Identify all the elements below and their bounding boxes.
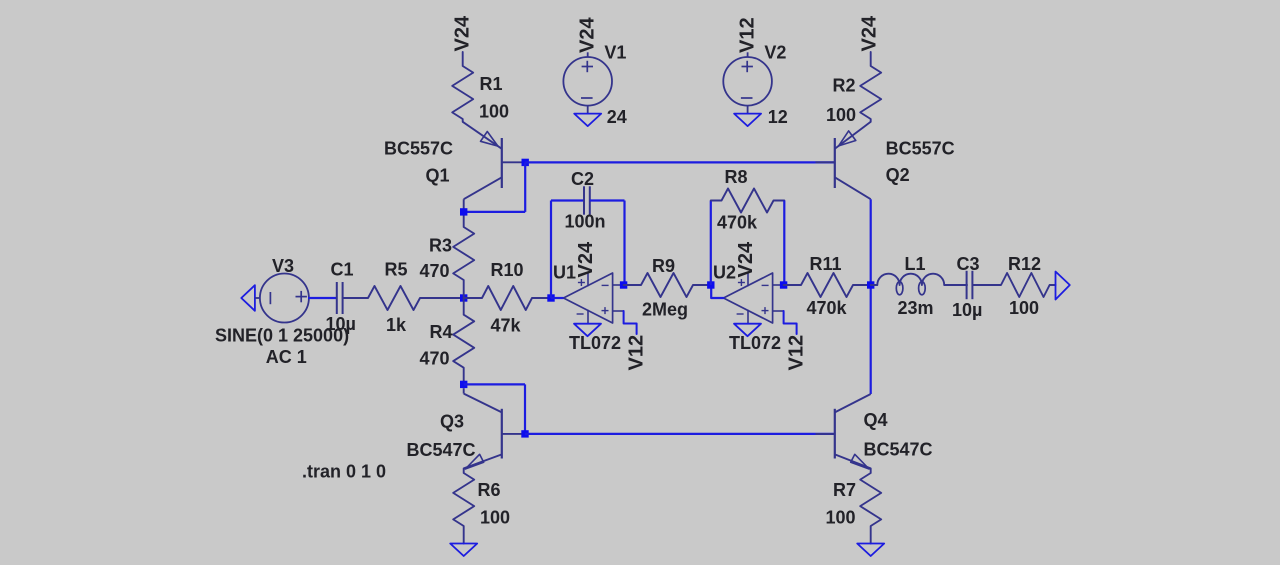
ground	[734, 114, 761, 127]
svg-text:1k: 1k	[386, 315, 407, 335]
svg-text:U2: U2	[713, 263, 736, 283]
wire	[551, 199, 584, 201]
junction U1 inverting input	[620, 281, 627, 288]
wire	[524, 384, 526, 434]
junction U2 inverting input	[780, 281, 787, 288]
svg-text:V24: V24	[452, 15, 474, 51]
svg-text:470k: 470k	[807, 298, 848, 318]
svg-text:Q4: Q4	[864, 410, 888, 430]
svg-text:V24: V24	[859, 15, 881, 51]
svg-text:R1: R1	[480, 74, 503, 94]
svg-text:V12: V12	[786, 335, 808, 371]
ground	[574, 324, 601, 337]
transistor Q1	[501, 138, 503, 188]
svg-text:V12: V12	[737, 17, 759, 53]
svg-text:BC557C: BC557C	[886, 139, 955, 159]
resistor R12	[972, 273, 1055, 297]
wire	[525, 161, 835, 163]
svg-text:R3: R3	[429, 236, 452, 256]
wire	[550, 201, 552, 299]
svg-text:TL072: TL072	[729, 333, 781, 353]
svg-text:10µ: 10µ	[952, 300, 982, 320]
capacitor C3	[966, 271, 968, 299]
svg-text:AC 1: AC 1	[266, 347, 307, 367]
svg-text:R11: R11	[810, 254, 842, 274]
wire U1 out	[551, 297, 564, 299]
svg-text:R6: R6	[478, 480, 501, 500]
svg-text:BC547C: BC547C	[407, 440, 476, 460]
junction node in	[460, 294, 467, 301]
svg-text:V24: V24	[575, 241, 597, 277]
ground	[734, 324, 761, 337]
junction node U1 out	[547, 294, 554, 301]
svg-text:.tran 0 1 0: .tran 0 1 0	[302, 462, 386, 482]
op-amp U2	[724, 273, 773, 323]
ground	[857, 544, 884, 557]
wire	[464, 383, 525, 385]
svg-text:V12: V12	[626, 335, 648, 371]
op-amp U1	[564, 273, 613, 323]
svg-text:23m: 23m	[898, 298, 934, 318]
transistor Q3	[501, 409, 503, 459]
svg-text:47k: 47k	[491, 316, 522, 336]
resistor R3	[453, 212, 474, 298]
svg-text:L1: L1	[905, 254, 926, 274]
svg-text:BC547C: BC547C	[864, 440, 933, 460]
transistor Q2	[834, 138, 836, 188]
svg-text:R10: R10	[491, 260, 524, 280]
junction R4 bottom	[460, 381, 467, 388]
svg-text:24: 24	[607, 107, 627, 127]
voltage source V3	[260, 274, 309, 323]
svg-text:V24: V24	[735, 241, 757, 277]
svg-text:10µ: 10µ	[326, 314, 356, 334]
svg-text:100n: 100n	[565, 212, 606, 232]
svg-text:470k: 470k	[717, 213, 758, 233]
wire	[255, 297, 261, 299]
svg-text:R4: R4	[430, 322, 453, 342]
svg-text:C1: C1	[331, 260, 354, 280]
svg-text:100: 100	[1009, 298, 1039, 318]
junction U2 out node	[707, 281, 714, 288]
svg-text:100: 100	[826, 508, 856, 528]
svg-text:2Meg: 2Meg	[642, 300, 688, 320]
capacitor C1	[336, 282, 338, 314]
resistor R1	[452, 52, 473, 122]
svg-text:BC557C: BC557C	[384, 139, 453, 159]
resistor R5	[343, 286, 464, 310]
svg-text:V2: V2	[764, 43, 786, 63]
transistor Q4	[834, 409, 836, 459]
svg-text:100: 100	[826, 105, 856, 125]
svg-text:C2: C2	[571, 169, 594, 189]
svg-text:100: 100	[480, 508, 510, 528]
resistor R10	[464, 286, 551, 310]
svg-text:C3: C3	[957, 254, 980, 274]
wire	[623, 201, 625, 286]
svg-text:V3: V3	[272, 256, 294, 276]
junction base Q1	[522, 159, 529, 166]
svg-text:V24: V24	[577, 17, 599, 53]
wire	[308, 297, 337, 299]
resistor R8	[711, 189, 785, 213]
svg-text:Q2: Q2	[886, 165, 910, 185]
resistor R7	[860, 468, 881, 543]
wire in+	[624, 311, 637, 334]
ground	[450, 544, 477, 557]
wire collector Q2	[870, 199, 872, 394]
resistor R11	[784, 273, 871, 297]
svg-text:R8: R8	[725, 167, 748, 187]
svg-text:TL072: TL072	[569, 333, 621, 353]
svg-text:R5: R5	[385, 260, 408, 280]
svg-text:R7: R7	[833, 480, 856, 500]
junction base Q3	[521, 430, 528, 437]
wire	[590, 199, 625, 201]
wire	[524, 162, 526, 212]
resistor R6	[453, 468, 474, 543]
wire in+	[784, 311, 797, 334]
svg-text:12: 12	[768, 107, 788, 127]
junction collector Q1	[460, 208, 467, 215]
wire	[710, 201, 712, 286]
resistor R9	[624, 273, 711, 297]
capacitor C2	[583, 186, 585, 214]
svg-text:100: 100	[479, 101, 509, 121]
svg-text:R12: R12	[1008, 254, 1041, 274]
svg-text:V1: V1	[604, 43, 626, 63]
wire	[464, 211, 526, 213]
output port	[1056, 272, 1070, 300]
svg-text:U1: U1	[553, 263, 576, 283]
inductor L1	[871, 274, 967, 285]
svg-text:Q3: Q3	[440, 412, 464, 432]
svg-text:Q1: Q1	[426, 166, 450, 186]
wire	[783, 201, 785, 286]
resistor R2	[860, 52, 881, 122]
svg-text:470: 470	[420, 349, 450, 369]
svg-text:470: 470	[420, 261, 450, 281]
wire base bus	[525, 433, 835, 435]
voltage source V1	[563, 57, 612, 106]
svg-text:R2: R2	[833, 75, 856, 95]
svg-text:R9: R9	[652, 256, 675, 276]
resistor R4	[453, 298, 474, 384]
input port	[241, 285, 255, 311]
junction output node	[867, 281, 874, 288]
voltage source V2	[723, 57, 772, 106]
wire U2 out	[711, 285, 723, 298]
ground	[574, 114, 601, 127]
